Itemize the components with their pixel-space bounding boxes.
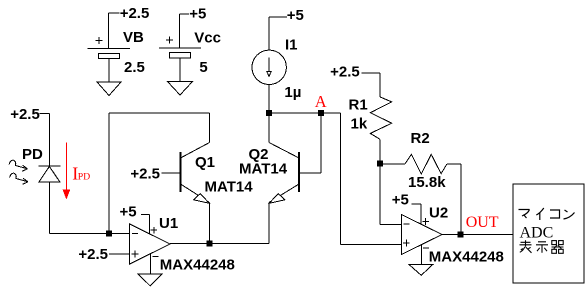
base wire	[162, 172, 181, 174]
svg-text:U1: U1	[159, 215, 178, 232]
ground (U1)	[138, 274, 162, 286]
wire A to U2 +input	[341, 113, 402, 245]
battery plate	[88, 48, 130, 50]
node A	[318, 110, 324, 116]
emitter	[181, 184, 210, 203]
svg-text:+5: +5	[392, 192, 409, 209]
svg-text:+2.5: +2.5	[10, 106, 40, 123]
emitter	[269, 184, 299, 203]
minus marker	[404, 223, 410, 225]
svg-text:VB: VB	[123, 29, 144, 46]
wire to node	[379, 139, 381, 163]
label hyoujiki (kanji)	[520, 240, 564, 253]
svg-text:15.8k: 15.8k	[408, 174, 446, 191]
svg-text:+2.5: +2.5	[78, 246, 108, 263]
label maikon (katakana)	[519, 208, 575, 220]
collector	[269, 143, 299, 159]
transistor Q2	[269, 143, 299, 204]
power wire bottom	[420, 245, 422, 265]
battery box	[169, 53, 190, 58]
emitter arrowhead	[194, 194, 210, 204]
light arrow 1	[9, 160, 28, 169]
plus sign	[166, 37, 173, 44]
resistor R2	[380, 154, 461, 234]
plus sign	[96, 37, 103, 44]
light arrow 2	[10, 173, 29, 182]
resistor R1	[362, 73, 392, 164]
wire node to A	[269, 112, 341, 114]
svg-text:Q1: Q1	[195, 154, 215, 171]
svg-text:+2.5: +2.5	[130, 165, 160, 182]
svg-text:Vcc: Vcc	[194, 30, 221, 47]
svg-text:PD: PD	[22, 146, 43, 163]
minus marker	[132, 233, 138, 235]
wire from +2.5	[362, 73, 381, 97]
svg-text:2.5: 2.5	[124, 59, 145, 76]
wire U2 output to box	[442, 234, 513, 236]
wire	[109, 13, 120, 48]
collector	[181, 143, 210, 159]
wire from node	[380, 163, 405, 165]
svg-text:5: 5	[199, 59, 207, 76]
transistor Q1	[162, 143, 210, 204]
cathode bar	[38, 165, 60, 167]
svg-text:MAT14: MAT14	[239, 161, 288, 178]
zigzag	[405, 154, 447, 174]
arrow inside	[268, 58, 270, 72]
node junction at U1 -input	[106, 231, 112, 237]
power wire bottom	[149, 254, 151, 275]
wire PD anode to U1 -input	[49, 182, 129, 234]
emitter arrowhead	[269, 194, 285, 204]
svg-text:MAT14: MAT14	[205, 179, 254, 196]
node junction at OUT	[458, 232, 464, 238]
wire I1 to Q2 collector	[268, 84, 270, 143]
feedback wire U1 -input up and over to Q1 collector	[109, 113, 209, 234]
svg-text:+5: +5	[120, 204, 137, 221]
triangle	[401, 215, 442, 255]
wire +2.5 to U1 +input	[109, 253, 130, 255]
op-amp U1	[130, 215, 171, 275]
plus marker	[131, 251, 138, 258]
power minus marker	[153, 255, 159, 257]
node junction under I1	[266, 110, 272, 116]
power wire top	[141, 215, 150, 234]
wire node down to U2 -input	[380, 163, 401, 224]
svg-text:MAX44248: MAX44248	[160, 257, 235, 274]
photodiode PD supply wire	[40, 113, 50, 165]
svg-text:U2: U2	[429, 204, 448, 221]
ground (U2)	[409, 265, 433, 276]
svg-text:+2.5: +2.5	[120, 5, 150, 22]
voltage source VB	[88, 13, 130, 82]
plus marker	[403, 240, 410, 247]
power plus marker	[150, 227, 157, 234]
power minus marker	[423, 247, 429, 249]
ground (VB)	[97, 82, 121, 96]
svg-text:ADC: ADC	[520, 225, 554, 242]
svg-text:MAX44248: MAX44248	[429, 249, 504, 266]
photodiode PD	[9, 160, 60, 184]
ground (Vcc)	[168, 82, 193, 96]
battery box	[99, 53, 120, 58]
svg-text:PD: PD	[78, 172, 91, 183]
wire	[180, 14, 189, 48]
svg-text:+5: +5	[189, 6, 206, 23]
svg-text:R2: R2	[411, 130, 430, 147]
wire	[179, 58, 181, 82]
current arrow IPD	[63, 142, 69, 198]
power wire top	[412, 204, 422, 224]
svg-text:I1: I1	[285, 37, 298, 54]
triangle	[130, 224, 171, 264]
zigzag	[370, 97, 391, 139]
wire to output	[447, 164, 461, 235]
box microcontroller/ADC/display	[513, 184, 584, 283]
base bar	[298, 152, 300, 192]
op-amp U2	[401, 204, 442, 265]
wire Q1 emitter to U1 output	[209, 203, 211, 244]
svg-text:1k: 1k	[351, 116, 368, 133]
power plus marker	[422, 218, 429, 225]
wire A down to Q2 base	[299, 113, 321, 173]
base bar	[180, 152, 182, 192]
voltage source Vcc	[159, 14, 201, 82]
anode triangle	[39, 166, 60, 182]
current source I1	[252, 17, 287, 85]
node junction at U1 output	[207, 241, 213, 247]
svg-text:A: A	[315, 92, 327, 111]
wire	[108, 59, 110, 82]
svg-text:OUT: OUT	[466, 214, 499, 231]
wire Q2 emitter to U1 output	[170, 203, 269, 244]
svg-text:1µ: 1µ	[284, 84, 301, 101]
wire	[269, 17, 287, 50]
node junction R1/R2	[377, 160, 383, 166]
battery plate	[159, 47, 201, 49]
svg-text:R1: R1	[349, 97, 368, 114]
svg-text:+2.5: +2.5	[330, 63, 360, 80]
svg-text:+5: +5	[287, 7, 304, 24]
